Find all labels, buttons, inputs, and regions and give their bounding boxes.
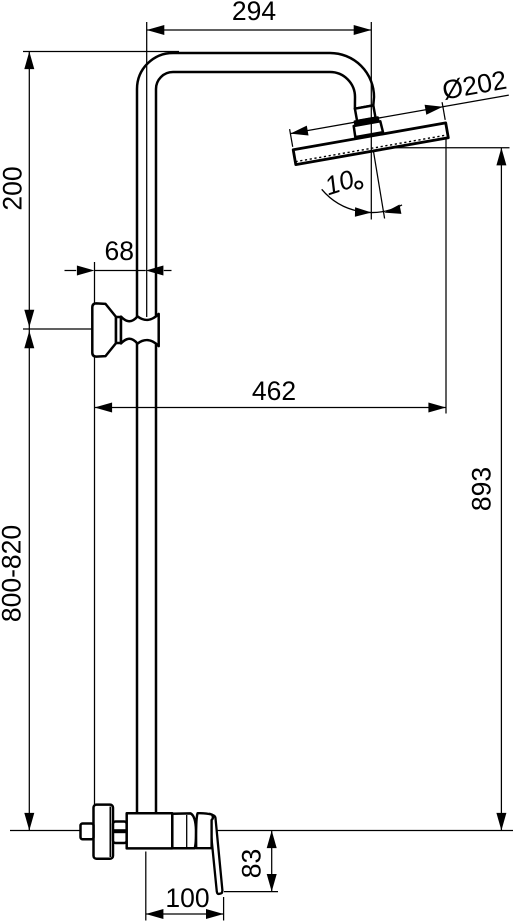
svg-text:83: 83 xyxy=(236,849,266,878)
svg-text:100: 100 xyxy=(165,883,209,913)
svg-text:462: 462 xyxy=(252,376,296,406)
svg-text:800-820: 800-820 xyxy=(0,525,26,622)
svg-text:893: 893 xyxy=(467,467,497,511)
svg-text:68: 68 xyxy=(105,236,134,266)
svg-text:200: 200 xyxy=(0,166,27,210)
svg-text:294: 294 xyxy=(232,0,276,26)
